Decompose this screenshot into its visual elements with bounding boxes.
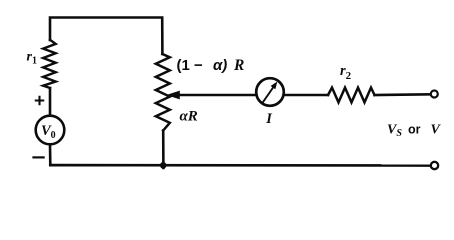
potentiometer R zigzag xyxy=(156,54,170,131)
terminal top xyxy=(431,91,438,98)
wiper arrow wire xyxy=(179,94,257,97)
resistor R1 xyxy=(43,40,56,88)
wire bottom rail xyxy=(50,164,430,167)
meter needle xyxy=(263,86,274,102)
resistor R2 xyxy=(328,88,375,103)
wire meter to r2 xyxy=(284,94,328,97)
source V0 circle xyxy=(36,116,65,145)
svg-text:αR: αR xyxy=(180,109,198,125)
junction node xyxy=(160,162,167,169)
wire left bottom xyxy=(49,145,52,166)
wiper arrowhead xyxy=(166,91,180,100)
label plus xyxy=(36,97,43,104)
wire left middle xyxy=(49,88,52,116)
wire r2 to terminal xyxy=(375,93,431,96)
meter U1 circle xyxy=(256,78,284,106)
label minus xyxy=(34,156,44,158)
terminal bottom xyxy=(431,162,438,169)
wire middle bottom xyxy=(162,131,165,169)
meter needle arrowhead xyxy=(271,82,278,90)
wire top loop xyxy=(50,18,162,55)
